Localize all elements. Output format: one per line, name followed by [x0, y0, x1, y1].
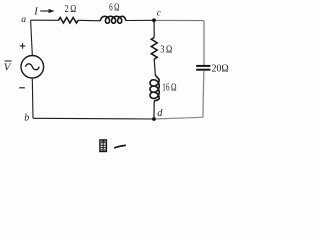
sine wave inside source: [25, 64, 39, 70]
wire bottom left: [33, 117, 154, 120]
caption glyph tu (figure): [100, 140, 107, 152]
svg-text:c: c: [157, 8, 161, 18]
voltage source circle: [21, 56, 44, 79]
svg-text:2 Ω: 2 Ω: [65, 4, 77, 15]
capacitor C 20ohm bottom plate: [196, 69, 210, 71]
minus sign: [19, 87, 25, 89]
wire right vertical upper: [203, 21, 205, 66]
inductor L 6ohm coil: [100, 16, 126, 23]
svg-text:16 Ω: 16 Ω: [162, 83, 177, 94]
resistor R 3ohm vertical zigzag: [151, 38, 157, 60]
svg-text:a: a: [21, 14, 26, 25]
svg-text:6 Ω: 6 Ω: [109, 3, 120, 14]
plus sign: [20, 43, 26, 49]
current arrow: [40, 10, 50, 12]
wire bottom right: [154, 117, 203, 119]
wire left vertical lower: [31, 79, 34, 119]
wire right vertical lower: [202, 71, 205, 118]
inductor L 16ohm vertical coil: [150, 75, 159, 101]
wire inductor to node c: [126, 19, 154, 21]
svg-text:20Ω: 20Ω: [212, 64, 229, 75]
node d junction dot: [152, 117, 156, 121]
resistor R 2ohm zigzag: [59, 18, 79, 24]
svg-text:b: b: [24, 112, 29, 123]
svg-text:I: I: [33, 6, 38, 17]
svg-text:d: d: [157, 108, 163, 119]
node c junction dot: [152, 18, 156, 22]
svg-text:V: V: [4, 62, 12, 74]
caption glyph yi (one): [115, 145, 125, 147]
capacitor C 20ohm top plate: [196, 65, 210, 67]
wire middle branch c to resistor: [153, 20, 155, 37]
wire top left horizontal: [31, 19, 59, 21]
wire left vertical upper: [31, 20, 33, 55]
wire between resistor and inductor: [78, 19, 100, 22]
svg-text:3 Ω: 3 Ω: [160, 45, 172, 56]
wire resistor to inductor middle: [154, 59, 155, 75]
wire inductor to node d: [153, 101, 155, 119]
wire node c to top-right corner: [154, 19, 204, 21]
